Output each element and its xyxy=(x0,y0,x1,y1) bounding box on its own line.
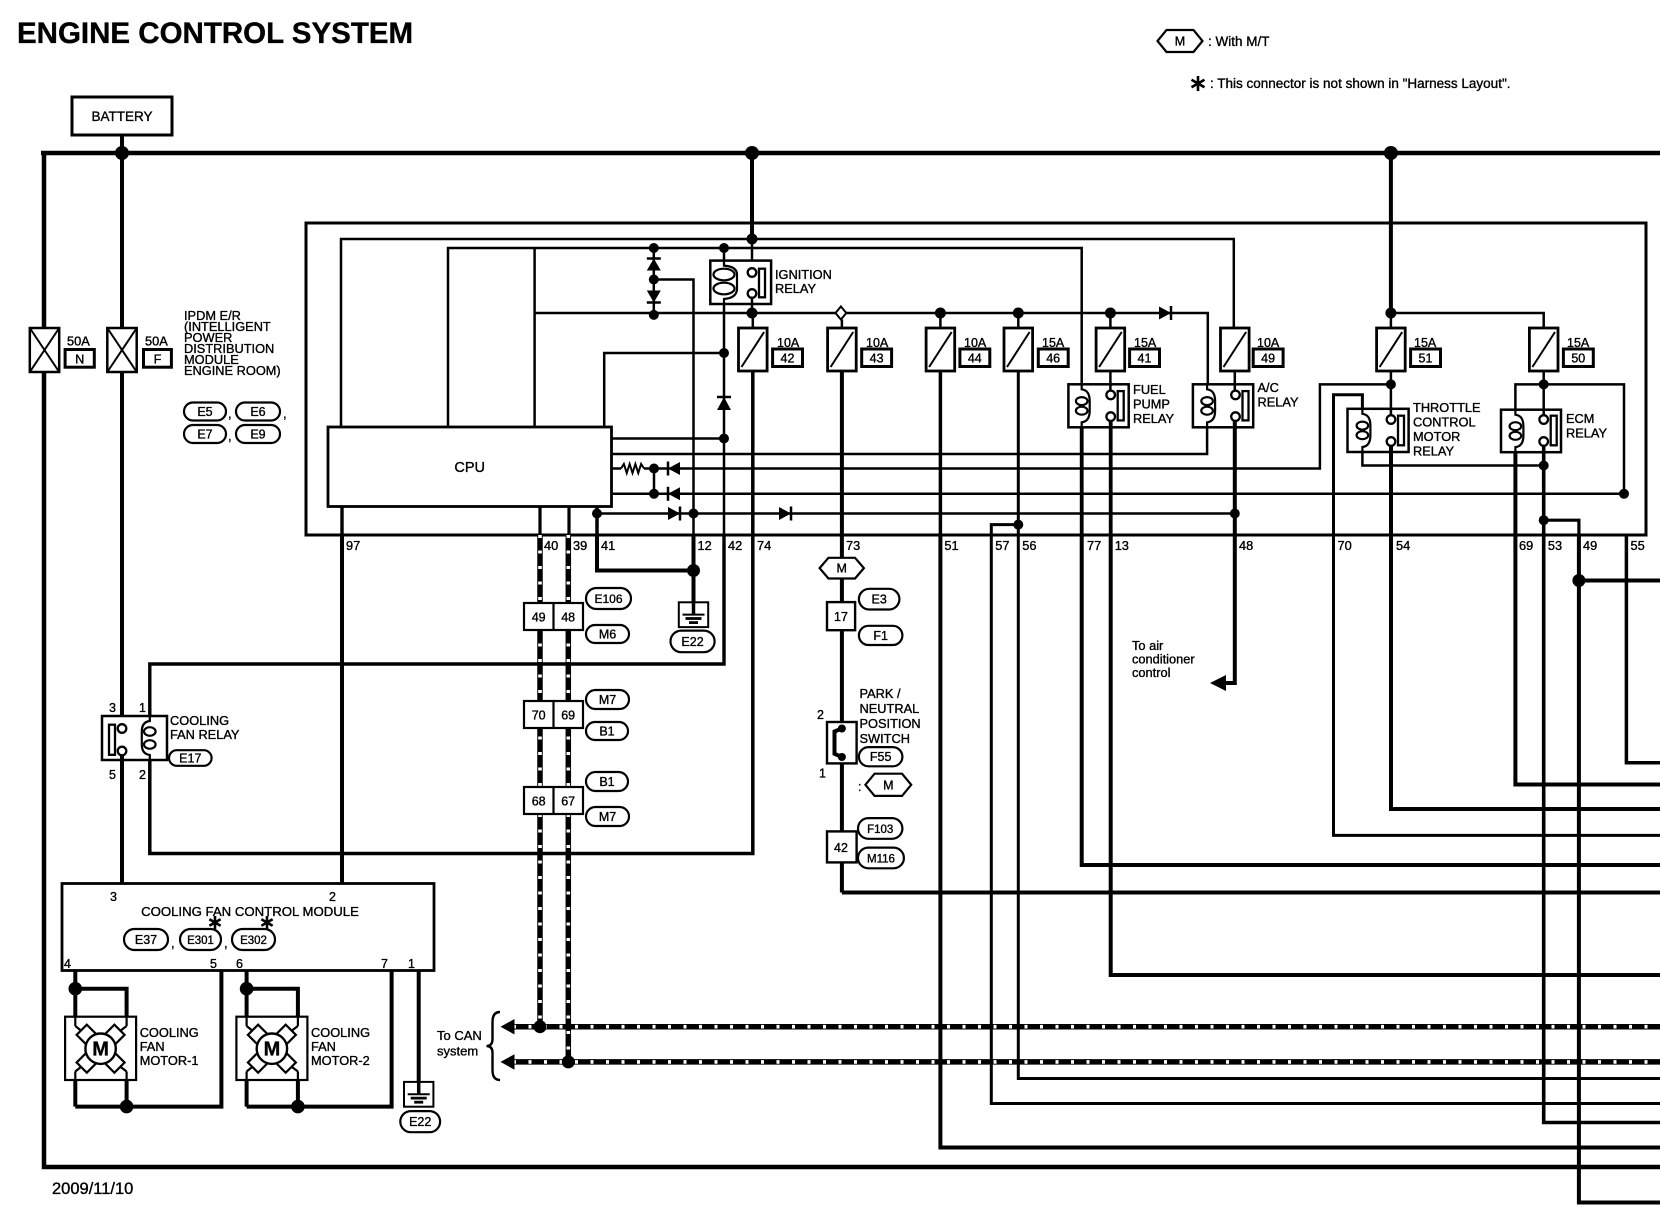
svg-text:A/C: A/C xyxy=(1258,380,1279,395)
connector B1 second xyxy=(586,772,628,791)
node ground E22 xyxy=(687,564,700,577)
svg-text:41: 41 xyxy=(1138,352,1152,366)
svg-text:E302: E302 xyxy=(240,935,267,947)
svg-text:M: M xyxy=(1175,35,1185,49)
cooling fan control module xyxy=(62,884,434,971)
wire CPU pin 41 xyxy=(595,507,599,536)
svg-text:IGNITION: IGNITION xyxy=(775,267,832,282)
fuel pump relay xyxy=(1068,384,1128,427)
wire internal line4 fuse feed xyxy=(535,313,1208,384)
svg-text:M: M xyxy=(264,1039,281,1061)
fuse 44 10A xyxy=(926,328,955,371)
svg-text:70: 70 xyxy=(532,709,546,723)
connector F1 xyxy=(859,626,903,645)
wire fuse41 to fuel contact xyxy=(1109,371,1112,391)
node ignition drop on line2 xyxy=(747,234,758,245)
svg-text:,: , xyxy=(171,936,175,951)
wire internal riser line3-line4 xyxy=(533,248,536,427)
svg-text:1: 1 xyxy=(819,767,826,781)
wire battery to bus xyxy=(120,135,124,155)
svg-text:2: 2 xyxy=(329,890,336,904)
svg-text:E22: E22 xyxy=(409,1115,431,1129)
wire ECM coil feed xyxy=(1515,384,1543,409)
svg-text:M7: M7 xyxy=(599,810,616,824)
fuse 51 15A xyxy=(1377,328,1406,371)
svg-text:RELAY: RELAY xyxy=(1258,395,1299,410)
svg-text:49: 49 xyxy=(1261,352,1275,366)
svg-text:69: 69 xyxy=(561,709,575,723)
node fuse 51/50 feed on bus xyxy=(1384,146,1398,160)
connector M6 xyxy=(586,625,629,643)
legend M/T hexagon xyxy=(1158,30,1203,52)
wire pin70 south xyxy=(1334,535,1660,835)
wire line3 to ignition coil top xyxy=(723,248,726,261)
node fuse42 feed xyxy=(747,308,758,319)
connector 68/67 xyxy=(524,787,583,814)
svg-text:67: 67 xyxy=(561,795,575,809)
svg-text:56: 56 xyxy=(1022,538,1036,553)
svg-text:,: , xyxy=(228,429,232,444)
svg-text:BATTERY: BATTERY xyxy=(91,109,152,124)
svg-text:RELAY: RELAY xyxy=(1133,411,1174,426)
ECM relay xyxy=(1501,410,1561,453)
wire ignition coil to pin42 xyxy=(723,304,726,535)
wire pin41 diode line to pin48 xyxy=(597,512,1235,515)
svg-text:FAN RELAY: FAN RELAY xyxy=(170,727,240,742)
wire ground link pins 41/12 xyxy=(597,535,694,571)
wire link resistor line to lower line xyxy=(653,469,656,494)
svg-text:97: 97 xyxy=(346,538,360,553)
wire relay pin5 to module xyxy=(120,754,124,883)
CAN line horizontal 1 xyxy=(513,1024,1660,1030)
wire pin 49 south xyxy=(1579,535,1660,1203)
svg-text:1: 1 xyxy=(139,701,146,715)
CAN arrow 2 xyxy=(501,1054,515,1070)
wire branch to pin57 xyxy=(991,525,1018,535)
node ECM contact / throttle coil xyxy=(1539,461,1549,471)
wire pin73 to park/neutral switch xyxy=(840,535,844,893)
wire ECM contact to pin53 xyxy=(1544,445,1660,1123)
wire fuse51 to throttle contact xyxy=(1390,371,1393,416)
wire fuse43 out to pin73 xyxy=(840,371,844,535)
wire pin54 south xyxy=(1391,535,1660,809)
connector E5 xyxy=(184,403,226,421)
svg-text::: : xyxy=(858,780,861,794)
svg-text:F: F xyxy=(154,352,162,367)
CAN line vertical 1 xyxy=(537,535,543,1027)
wire ECM coil to pin69 xyxy=(1515,452,1660,784)
fuse 41 15A xyxy=(1096,328,1125,371)
wire pin51 south xyxy=(940,535,1660,1148)
svg-text:E106: E106 xyxy=(594,592,622,606)
wire CPU pin 97 xyxy=(340,507,343,536)
svg-text:THROTTLE: THROTTLE xyxy=(1413,400,1481,415)
node fuse41 feed xyxy=(1105,308,1116,319)
svg-text:E22: E22 xyxy=(681,635,703,649)
wire CPU pin97 to module xyxy=(340,535,344,884)
A/C relay xyxy=(1193,384,1253,427)
diode on pin42 wire xyxy=(717,397,731,410)
svg-text:69: 69 xyxy=(1519,538,1533,553)
wire diode chain to pin12 column xyxy=(654,280,694,536)
connector E17 xyxy=(169,750,212,766)
connector E106 xyxy=(586,588,631,609)
connector E37 xyxy=(124,929,168,950)
connector M116 xyxy=(858,848,904,869)
fusible link F 50A xyxy=(107,328,136,372)
node pin57 branch xyxy=(1013,520,1023,530)
svg-text:51: 51 xyxy=(944,538,958,553)
cooling fan motor-2 xyxy=(236,1017,307,1080)
svg-text:COOLING: COOLING xyxy=(170,713,229,728)
wire bus to ignition relay contact xyxy=(750,153,754,239)
svg-text:,: , xyxy=(224,936,228,951)
svg-text:ECM: ECM xyxy=(1566,411,1594,426)
wire park/neutral to right edge xyxy=(842,891,1660,895)
wire A/C contact to pin48 xyxy=(1233,420,1237,535)
wire module pin1 to ground xyxy=(417,971,421,1096)
svg-text:42: 42 xyxy=(834,841,848,855)
wire fuel contact to pin13 xyxy=(1109,420,1113,535)
svg-text:3: 3 xyxy=(109,701,116,715)
connector 49/48 xyxy=(524,603,583,630)
wire motor-2 bottom to module pin7 xyxy=(247,971,392,1107)
connector E22 second xyxy=(400,1111,440,1132)
node under fuse 50 xyxy=(1539,379,1549,389)
svg-text:: This connector is not shown: : This connector is not shown in "Harnes… xyxy=(1210,76,1511,91)
IPDM E/R enclosure xyxy=(306,223,1646,535)
node fuse46 feed xyxy=(1013,308,1024,319)
arrow to air conditioner xyxy=(1210,675,1226,691)
park/neutral position switch xyxy=(827,722,857,763)
connector M7 xyxy=(586,690,629,709)
connector M7 second xyxy=(586,807,629,826)
svg-text:RELAY: RELAY xyxy=(1566,426,1607,441)
svg-text:5: 5 xyxy=(210,957,217,971)
svg-text:E6: E6 xyxy=(250,405,265,419)
svg-text:2: 2 xyxy=(139,768,146,782)
svg-text:M: M xyxy=(837,562,847,576)
connector E302 xyxy=(232,929,275,950)
wire ignition contact to fuse line xyxy=(751,297,754,313)
wire CPU to pin42 node xyxy=(612,437,725,440)
svg-text:N: N xyxy=(75,352,84,367)
wire motor-2 return xyxy=(245,1080,249,1107)
svg-text:,: , xyxy=(228,406,232,421)
svg-text:PUMP: PUMP xyxy=(1133,397,1170,412)
svg-text:2009/11/10: 2009/11/10 xyxy=(52,1180,133,1198)
svg-text:46: 46 xyxy=(1046,352,1060,366)
wire fuse42 out to pin74 and cooling fan relay pin2 xyxy=(150,371,753,854)
svg-text:44: 44 xyxy=(968,352,982,366)
wire CPU to ECM contact riser xyxy=(612,493,1625,496)
wire fuse50 to ECM contact xyxy=(1542,371,1545,416)
svg-text:CONTROL: CONTROL xyxy=(1413,415,1476,430)
wire CPU pin 40 xyxy=(538,507,541,536)
terminal 17 box xyxy=(827,602,855,630)
svg-text:CPU: CPU xyxy=(454,460,485,476)
svg-text:73: 73 xyxy=(846,538,860,553)
svg-text:M: M xyxy=(883,778,893,792)
wire pin57 south xyxy=(991,535,1660,1104)
svg-text:E9: E9 xyxy=(250,428,265,442)
svg-text:68: 68 xyxy=(532,795,546,809)
svg-text:E7: E7 xyxy=(197,428,212,442)
svg-text:F103: F103 xyxy=(867,824,893,836)
fusible link N 50A xyxy=(30,328,59,372)
connector B1 xyxy=(586,722,628,740)
svg-text:2: 2 xyxy=(817,708,824,722)
svg-text:E17: E17 xyxy=(179,752,201,766)
node CAN 2 xyxy=(562,1055,575,1068)
svg-text:4: 4 xyxy=(64,957,71,971)
fuse 42 10A xyxy=(739,328,768,371)
svg-text:,: , xyxy=(283,406,287,421)
wire fuse49 to A/C contact xyxy=(1234,371,1237,391)
wire pin13 south xyxy=(1111,535,1660,975)
svg-text:F1: F1 xyxy=(873,629,888,643)
connector E3 xyxy=(859,589,900,610)
svg-text:5: 5 xyxy=(109,768,116,782)
svg-text:: With M/T: : With M/T xyxy=(1208,34,1270,49)
wire fuse46 to pin56 xyxy=(1017,371,1020,535)
svg-text:1: 1 xyxy=(408,957,415,971)
connector F103 xyxy=(858,818,902,839)
wire motor-1 return xyxy=(73,1080,77,1107)
svg-text:B1: B1 xyxy=(599,725,614,739)
svg-text:42: 42 xyxy=(728,538,742,553)
wire CPU pin 39 xyxy=(567,507,570,536)
node pin49 east branch xyxy=(1572,574,1585,587)
wire branch to pin 49 xyxy=(1544,520,1579,535)
connector diamond fuse43 feed xyxy=(836,307,847,320)
wire motor-1 bottom to module pin5 xyxy=(75,971,221,1107)
wire pin48 to air conditioner xyxy=(1224,535,1235,683)
wire module to motor-2 xyxy=(245,971,249,989)
cooling fan relay xyxy=(102,716,167,760)
svg-text:To CAN: To CAN xyxy=(437,1028,482,1043)
svg-text:51: 51 xyxy=(1419,352,1433,366)
ground E22 xyxy=(679,602,708,627)
node pin42 to CPU xyxy=(719,434,729,444)
cooling fan motor-1 xyxy=(65,1017,136,1080)
node pin49 branch xyxy=(1539,515,1549,525)
svg-text:ENGINE CONTROL SYSTEM: ENGINE CONTROL SYSTEM xyxy=(17,17,413,50)
svg-text:40: 40 xyxy=(544,538,558,553)
wire pin42 to cooling fan relay pin1 xyxy=(150,535,724,716)
connector E7 xyxy=(184,425,226,443)
svg-text:E301: E301 xyxy=(187,935,214,947)
hexagon with M/T marker xyxy=(820,558,864,579)
svg-text:50A: 50A xyxy=(145,334,168,349)
fuse 43 10A xyxy=(828,328,857,371)
svg-text:70: 70 xyxy=(1338,538,1352,553)
node under fuse 51 xyxy=(1386,379,1396,389)
svg-text:FUEL: FUEL xyxy=(1133,382,1166,397)
svg-text:50A: 50A xyxy=(67,334,90,349)
wire fuel coil to pin77 xyxy=(1080,427,1084,535)
main battery bus wire xyxy=(41,151,1660,156)
wire module to motor-1 xyxy=(73,971,77,989)
svg-text:M7: M7 xyxy=(599,693,616,707)
connector E9 xyxy=(236,425,280,443)
svg-text:74: 74 xyxy=(757,538,771,553)
svg-text:39: 39 xyxy=(573,538,587,553)
wire pin77 south xyxy=(1082,535,1660,865)
node ignition coil feed on line3 xyxy=(719,243,729,253)
svg-text:E37: E37 xyxy=(135,933,157,947)
svg-text:COOLING FAN CONTROL MODULE: COOLING FAN CONTROL MODULE xyxy=(141,904,359,919)
ground E22 second xyxy=(404,1082,433,1107)
svg-text:RELAY: RELAY xyxy=(1413,444,1454,459)
svg-text:13: 13 xyxy=(1115,538,1129,553)
wire internal line3 coil feed xyxy=(448,248,1082,427)
svg-text:55: 55 xyxy=(1631,538,1645,553)
connector E301 xyxy=(180,929,221,950)
legend asterisk note xyxy=(1197,76,1200,91)
ignition relay U-IGN xyxy=(710,261,771,304)
node battery column on bus xyxy=(115,146,129,160)
fuse 46 15A xyxy=(1004,328,1033,371)
svg-text:MOTOR: MOTOR xyxy=(1413,429,1460,444)
svg-text:54: 54 xyxy=(1396,538,1410,553)
connector E6 xyxy=(236,403,280,421)
svg-text:F55: F55 xyxy=(870,750,892,764)
svg-text:43: 43 xyxy=(870,352,884,366)
svg-text:M6: M6 xyxy=(599,628,616,642)
svg-text:M116: M116 xyxy=(867,853,895,865)
node coil branch y353 xyxy=(719,348,729,358)
svg-text:41: 41 xyxy=(601,538,615,553)
svg-text:M: M xyxy=(92,1039,109,1061)
brace xyxy=(487,1012,501,1080)
wire fuse F column xyxy=(120,155,124,328)
svg-text:50: 50 xyxy=(1571,352,1585,366)
wire fuse44 to pin51 xyxy=(939,371,943,535)
wire CPU to A/C relay coil xyxy=(612,427,1208,454)
connector E22 xyxy=(671,631,715,653)
svg-text:6: 6 xyxy=(236,957,243,971)
fuse 50 15A xyxy=(1529,328,1558,371)
wire pin49 east xyxy=(1579,579,1660,583)
node CAN 1 xyxy=(534,1020,547,1033)
svg-text:17: 17 xyxy=(834,610,848,624)
wire pin55 xyxy=(1626,535,1660,763)
svg-text:48: 48 xyxy=(561,611,575,625)
wire throttle coil low to ECM contact node xyxy=(1362,452,1543,466)
svg-text:49: 49 xyxy=(1583,538,1597,553)
svg-text:IPDM E/R(INTELLIGENTPOWERDISTR: IPDM E/R(INTELLIGENTPOWERDISTRIBUTIONMOD… xyxy=(184,308,281,378)
wire fuse 50 feed xyxy=(1391,313,1544,328)
wire CPU resistor line to throttle contact xyxy=(612,467,622,470)
wire throttle contact to pin54 xyxy=(1389,445,1393,535)
terminal 42 box xyxy=(827,831,857,862)
fuse 49 10A xyxy=(1221,328,1250,371)
wire throttle coil to pin70 xyxy=(1334,395,1363,535)
svg-text:E3: E3 xyxy=(872,593,887,607)
svg-text:48: 48 xyxy=(1239,538,1253,553)
svg-text:B1: B1 xyxy=(599,775,614,789)
svg-text:49: 49 xyxy=(532,611,546,625)
svg-text:7: 7 xyxy=(381,957,388,971)
svg-text:RELAY: RELAY xyxy=(775,281,816,296)
svg-text:57: 57 xyxy=(995,538,1009,553)
diode chain line3 to line4 xyxy=(653,248,656,315)
wire internal B+ line2 xyxy=(341,239,1234,427)
wire internal riser y353 xyxy=(604,353,724,427)
CAN arrow 1 xyxy=(501,1019,515,1035)
CAN line vertical 2 xyxy=(566,535,572,1062)
throttle control motor relay xyxy=(1348,409,1409,452)
node ignition feed on bus xyxy=(745,146,759,160)
node fuse44 feed xyxy=(935,308,946,319)
wire pin56 south xyxy=(1018,535,1660,1079)
battery xyxy=(72,97,172,135)
svg-text:E5: E5 xyxy=(197,405,212,419)
svg-text:77: 77 xyxy=(1087,538,1101,553)
svg-text:3: 3 xyxy=(110,890,117,904)
connector 70/69 xyxy=(524,701,583,728)
svg-text:42: 42 xyxy=(781,352,795,366)
CPU xyxy=(328,427,612,507)
CAN line horizontal 2 xyxy=(513,1059,1660,1065)
connector F55 xyxy=(859,747,903,766)
wire bus to fuse 51/50 feed xyxy=(1389,153,1393,313)
diode on line4 to A/C coil xyxy=(1159,307,1171,320)
svg-text:system: system xyxy=(437,1044,478,1059)
wire fuse50 node to ECM riser xyxy=(1544,384,1624,493)
svg-text:12: 12 xyxy=(698,538,712,553)
svg-text:53: 53 xyxy=(1548,538,1562,553)
